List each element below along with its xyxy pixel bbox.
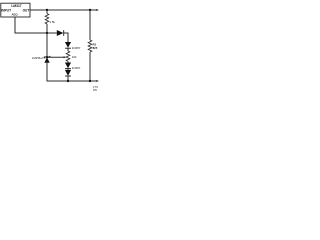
diode D4: [65, 70, 71, 76]
svg-text:OUT: OUT: [23, 8, 30, 12]
wire D3 to D4: [67, 69, 69, 70]
wire ADJ pin down and right: [15, 17, 47, 33]
node chain bottom: [67, 80, 69, 82]
resistor R1 1.5k: [45, 14, 49, 24]
svg-text:825: 825: [93, 46, 98, 50]
wire adj node to D1: [47, 32, 57, 34]
output arrow top: [96, 9, 99, 11]
svg-text:30V: 30V: [93, 90, 98, 92]
svg-text:0 TO: 0 TO: [93, 87, 98, 89]
diode D1: [57, 30, 64, 36]
svg-text:ADJ: ADJ: [11, 13, 17, 17]
svg-text:1N457: 1N457: [72, 66, 81, 70]
wire adj node down to zener: [46, 33, 48, 57]
wire pot to D3: [67, 61, 69, 62]
wire node to R1: [46, 10, 48, 14]
svg-text:INPUT: INPUT: [1, 8, 11, 12]
potentiometer R3 10k: [66, 51, 77, 61]
svg-text:LM336-2.5: LM336-2.5: [32, 56, 46, 60]
regulator U1 LM317: [1, 3, 30, 17]
wire OUT to right rail: [30, 9, 98, 11]
svg-text:1N457: 1N457: [72, 46, 81, 50]
node at R1 top: [46, 9, 48, 11]
svg-text:1.5k: 1.5k: [50, 20, 56, 24]
diode D2 1N457: [65, 42, 81, 50]
resistor R2: [88, 40, 98, 52]
diode D3 1N457: [65, 63, 81, 71]
wire R2 to bottom rail: [89, 52, 91, 81]
wire D1 to chain top: [64, 33, 68, 42]
wiper wire from zener node: [47, 56, 64, 58]
wire R1 to adj node: [46, 24, 48, 33]
zener D5 LM336-2.5: [32, 56, 50, 63]
output label bottom right: [93, 87, 98, 92]
wire D2 to pot: [67, 48, 69, 51]
wire right rail down to R2: [89, 10, 91, 40]
output arrow bottom: [96, 80, 99, 82]
node wiper tap: [46, 56, 48, 58]
wire D4 to bottom rail: [67, 76, 69, 81]
svg-text:LM317: LM317: [11, 4, 21, 8]
wiper arrow: [64, 56, 67, 58]
node adj junction: [46, 32, 48, 34]
wire zener to bottom rail: [47, 63, 98, 81]
svg-text:10k: 10k: [72, 55, 77, 59]
node bottom right: [89, 80, 91, 82]
node at right rail top: [89, 9, 91, 11]
